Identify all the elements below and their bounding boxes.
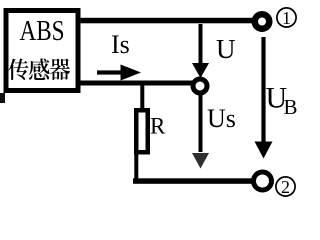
node circle [193, 79, 207, 93]
terminal circle 1 [255, 14, 270, 29]
wire top (box to terminal 1) [78, 18, 256, 24]
svg-text:1: 1 [282, 8, 291, 28]
resistor lead bottom [134, 152, 138, 181]
resistor lead top [140, 84, 144, 112]
svg-text:U: U [216, 34, 236, 64]
arrowhead U down [192, 63, 209, 78]
svg-text:Is: Is [111, 30, 130, 59]
wire U arrow line [199, 24, 203, 64]
scan mark left edge [0, 93, 5, 103]
arrow Is (current) [97, 65, 141, 81]
wire bottom (resistor to terminal 2) [133, 178, 256, 184]
svg-text:ABS: ABS [20, 15, 65, 47]
wire Us arrow line [199, 95, 203, 152]
label circled 2 [276, 177, 295, 197]
ABS sensor box [6, 11, 78, 91]
resistor R body [136, 110, 148, 152]
label 传感器 (sensor) glyph paths [9, 58, 70, 80]
svg-text:2: 2 [281, 177, 290, 197]
wire middle (box to node) [78, 81, 200, 86]
label circled 1 [277, 8, 296, 28]
svg-text:R: R [150, 114, 166, 139]
arrowhead UB down [255, 142, 273, 159]
svg-text:Us: Us [207, 104, 236, 133]
arrowhead Us down [192, 153, 209, 169]
terminal circle 2 [254, 172, 272, 190]
wire UB vertical [261, 37, 265, 142]
svg-text:B: B [284, 95, 298, 119]
